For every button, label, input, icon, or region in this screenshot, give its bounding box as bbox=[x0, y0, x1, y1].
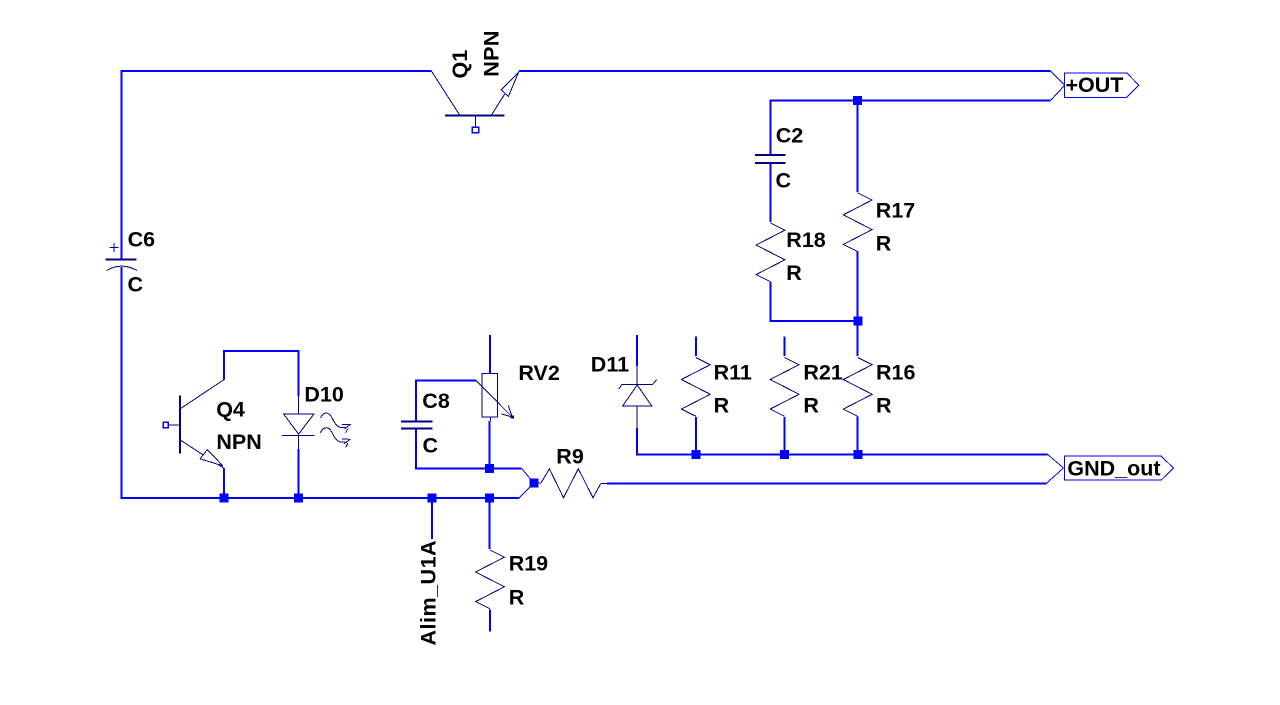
wire R17 bottom bbox=[857, 252, 859, 321]
wire R17 top bbox=[857, 100, 859, 192]
svg-text:Q1: Q1 bbox=[448, 50, 472, 79]
svg-text:R: R bbox=[876, 231, 892, 255]
capacitor C8 bbox=[401, 389, 450, 458]
svg-text:NPN: NPN bbox=[216, 430, 261, 454]
svg-text:Q4: Q4 bbox=[216, 397, 245, 421]
svg-text:R11: R11 bbox=[714, 361, 752, 385]
resistor R19 bbox=[476, 498, 549, 631]
junction node (784.6,454) bbox=[780, 450, 789, 459]
svg-text:R16: R16 bbox=[876, 360, 915, 384]
svg-text:R17: R17 bbox=[876, 199, 915, 223]
potentiometer RV2 bbox=[476, 335, 560, 421]
capacitor C2 bbox=[755, 124, 803, 193]
terminal GND_out bbox=[1065, 456, 1174, 480]
capacitor C6 bbox=[106, 227, 156, 296]
wire R16 top bbox=[857, 321, 859, 356]
wire C8 loop top bbox=[416, 381, 476, 422]
svg-text:R: R bbox=[803, 393, 819, 417]
wire RV2 bottom to junction bbox=[489, 421, 491, 469]
svg-text:GND_out: GND_out bbox=[1067, 456, 1160, 480]
zener D11 bbox=[591, 335, 657, 428]
svg-text:R19: R19 bbox=[509, 552, 548, 576]
svg-text:C: C bbox=[776, 169, 792, 193]
resistor R17 bbox=[843, 193, 915, 256]
svg-text:C6: C6 bbox=[128, 227, 156, 251]
svg-text:R: R bbox=[509, 586, 525, 610]
LED D10 bbox=[282, 383, 350, 449]
svg-text:C8: C8 bbox=[422, 389, 450, 413]
wire left vertical + top horizontal to Q1 collector bbox=[122, 71, 432, 259]
svg-text:D10: D10 bbox=[304, 383, 343, 407]
svg-text:R18: R18 bbox=[786, 228, 825, 252]
resistor R16 bbox=[843, 358, 915, 418]
wire C2 to R18 bbox=[770, 163, 772, 222]
svg-text:RV2: RV2 bbox=[518, 361, 559, 385]
svg-text:C: C bbox=[423, 434, 439, 458]
junction node (858,100) bbox=[853, 96, 862, 105]
svg-text:NPN: NPN bbox=[479, 30, 503, 77]
resistor R9 bbox=[538, 445, 607, 498]
wire R16 bottom bbox=[857, 416, 859, 454]
wire C2/R17 top net to +OUT bbox=[771, 100, 1051, 155]
wire C8 bottom to junction bbox=[416, 429, 489, 469]
junction node (432,498) bbox=[428, 494, 437, 503]
wire D10 cathode down bbox=[298, 449, 300, 498]
wire left vertical below C6, bottom bus to R9 funnel bbox=[122, 267, 519, 498]
transistor Q1 bbox=[432, 30, 520, 132]
transistor Q4 bbox=[163, 379, 262, 468]
svg-text:+OUT: +OUT bbox=[1066, 73, 1124, 97]
junction node (298.6,498) bbox=[294, 494, 303, 503]
svg-text:Alim_U1A: Alim_U1A bbox=[417, 540, 441, 646]
svg-text:R9: R9 bbox=[556, 445, 584, 469]
wire R18 bottom to junction bbox=[771, 282, 859, 321]
wire R9 right to GND_out bbox=[607, 482, 1047, 484]
wire Q1 emitter to +OUT bbox=[519, 70, 1050, 72]
junction node (858,321) bbox=[854, 317, 863, 326]
svg-text:C: C bbox=[128, 273, 144, 297]
wire Alim stub bbox=[431, 498, 433, 539]
svg-text:C2: C2 bbox=[776, 124, 804, 148]
svg-text:R21: R21 bbox=[803, 360, 842, 384]
junction node (223.8,498) bbox=[219, 494, 228, 503]
wire Q4 emitter down bbox=[223, 469, 225, 498]
junction node (489.5,498) bbox=[485, 494, 494, 503]
resistor R18 bbox=[756, 223, 826, 285]
junction node (489.5,468.6) bbox=[485, 464, 494, 473]
svg-text:R: R bbox=[714, 394, 730, 418]
junction node (534,483) R9 left bbox=[530, 479, 539, 488]
terminal +OUT bbox=[1065, 73, 1139, 97]
svg-text:D11: D11 bbox=[591, 353, 629, 377]
wire GND bus bbox=[637, 428, 1047, 454]
wire C8/RV2 net upper funnel bbox=[490, 468, 522, 470]
wire Q4 collector net to D10 anode bbox=[224, 351, 299, 396]
svg-text:R: R bbox=[876, 393, 892, 417]
svg-text:R: R bbox=[786, 261, 802, 285]
resistor R11 bbox=[681, 337, 751, 455]
resistor R21 bbox=[770, 337, 843, 455]
junction node (695.8,454) bbox=[691, 450, 700, 459]
junction node (858,454) bbox=[854, 450, 863, 459]
